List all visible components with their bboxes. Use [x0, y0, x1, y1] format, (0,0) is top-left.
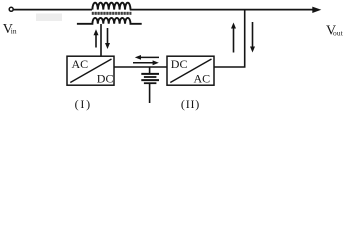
power flow down arrow (right): [250, 22, 255, 53]
converter block U2 box: [167, 56, 214, 85]
wire: top line right segment: [130, 9, 313, 11]
svg-text:in: in: [11, 26, 17, 35]
svg-text:AC: AC: [72, 57, 89, 71]
power flow left arrow (dc link): [135, 55, 159, 60]
svg-text:AC: AC: [194, 72, 211, 86]
wire: secondary tap down to converter I: [100, 24, 102, 57]
svg-text:out: out: [333, 29, 344, 38]
wire: U1 to U2 dc link: [114, 66, 167, 68]
output arrowhead: [312, 7, 321, 13]
svg-text:(I): (I): [75, 97, 92, 111]
battery B1: [141, 67, 159, 103]
converter U1 diagonal: [70, 59, 111, 83]
wire: top line left segment: [13, 9, 92, 11]
input terminal circle: [9, 7, 13, 11]
svg-text:DC: DC: [97, 72, 114, 86]
power flow right arrow (dc link): [133, 60, 159, 65]
converter block U1 box: [67, 56, 114, 85]
svg-text:(II): (II): [181, 97, 200, 111]
power flow up arrow (left): [94, 29, 99, 47]
transformer T1 core: [92, 12, 132, 15]
power flow up arrow (right): [231, 23, 236, 53]
transformer T1 secondary winding: [77, 18, 142, 24]
converter U2 diagonal: [170, 59, 211, 83]
transformer T1 primary winding: [92, 3, 130, 10]
wire: U2 output to top line: [214, 10, 245, 67]
svg-text:DC: DC: [171, 57, 188, 71]
power flow down arrow (left): [105, 28, 110, 49]
